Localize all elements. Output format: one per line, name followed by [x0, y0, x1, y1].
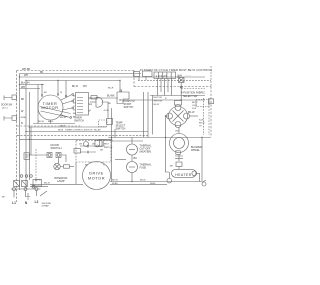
power lead N	[25, 191, 27, 198]
wire timer to right 2	[90, 101, 96, 103]
thermal fuse contact	[129, 166, 135, 168]
ground strap diagonal	[40, 191, 47, 196]
wire into thermal fuse	[115, 158, 126, 160]
svg-text:R: R	[103, 165, 105, 167]
component connector J2	[107, 119, 113, 125]
svg-text:BK-W: BK-W	[35, 180, 42, 182]
wire top third	[26, 80, 120, 82]
svg-text:1 2 3 4 5: 1 2 3 4 5	[156, 74, 168, 78]
wire fuse drop	[131, 173, 133, 182]
wire door switch right	[61, 155, 66, 162]
wire motor leads	[90, 162, 102, 164]
dashed box door-lamp	[35, 149, 37, 183]
wire right dashed stub 1	[203, 98, 205, 135]
node timer top 2	[57, 94, 59, 96]
wire start branch right dashed	[181, 88, 205, 90]
svg-text:BK-W: BK-W	[140, 180, 145, 182]
svg-text:GY-R: GY-R	[104, 110, 110, 112]
node junction N bus	[25, 80, 26, 81]
node cam contact 1	[72, 94, 74, 96]
drive motor switch dashed box	[76, 141, 111, 163]
wire N bus vertical	[25, 83, 27, 189]
svg-text:BK: BK	[21, 98, 25, 101]
wire right lower vertical	[201, 138, 203, 182]
wire drop to timer 1	[41, 85, 43, 96]
svg-text:DOOR SW: DOOR SW	[1, 105, 13, 107]
wire big box bottom 1	[108, 137, 211, 139]
wire door switch left	[29, 154, 47, 156]
fuse block F1	[33, 180, 42, 187]
svg-text:GN: GN	[175, 131, 179, 133]
node junction motor left	[165, 115, 166, 116]
motor switch small rect	[95, 141, 102, 147]
svg-text:W-BK: W-BK	[150, 183, 156, 185]
svg-text:MOTOR: MOTOR	[41, 105, 58, 110]
motor switch box line3	[152, 95, 154, 135]
svg-text:GY: GY	[199, 126, 203, 128]
svg-text:GY-R: GY-R	[192, 105, 198, 107]
svg-text:R: R	[21, 122, 23, 125]
wire right verticals to motor	[112, 108, 116, 182]
wire motor right stub	[190, 115, 199, 117]
motor winding lobe left	[167, 113, 173, 119]
svg-text:SWITCH: SWITCH	[116, 128, 126, 131]
svg-text:SWITCH: SWITCH	[124, 106, 134, 109]
heat selector switch S2	[117, 92, 129, 104]
svg-text:N: N	[25, 201, 28, 205]
node junction drop1	[41, 84, 42, 85]
component plug A	[12, 95, 17, 100]
motor switch contacts inside	[80, 146, 105, 152]
svg-text:R: R	[90, 110, 92, 112]
svg-text:WHEEL: WHEEL	[191, 149, 201, 152]
svg-text:HEATER: HEATER	[175, 173, 191, 177]
push to start switch S3	[179, 78, 185, 83]
wire heater left terminal link	[168, 172, 170, 178]
timer sequence chart dashed right	[210, 66, 212, 87]
thermal fuse TF1	[127, 162, 138, 173]
motor winding cross wires	[173, 111, 184, 122]
svg-text:SWITCH: SWITCH	[154, 101, 163, 103]
wire start switch drop	[180, 83, 182, 101]
svg-text:L2: L2	[35, 200, 39, 204]
svg-text:L1: L1	[12, 201, 16, 205]
power lead L2	[36, 191, 38, 197]
node junction chart drop	[177, 76, 178, 77]
node bottom right terminal	[202, 182, 206, 186]
heater terminal left	[167, 178, 172, 183]
svg-text:BK: BK	[108, 103, 111, 105]
wire mid horizontal lower	[26, 131, 148, 133]
heater terminal right	[192, 171, 197, 176]
svg-text:R-W: R-W	[192, 108, 196, 110]
wire timer cam line 4	[60, 115, 70, 118]
wire selector drop	[119, 81, 121, 93]
power lead L1	[13, 191, 15, 198]
svg-text:W: W	[90, 98, 92, 100]
node junction L1-WH	[19, 76, 20, 77]
timer cam chord 1	[40, 107, 71, 114]
relay box A mark	[14, 181, 19, 186]
component start relay	[196, 100, 209, 107]
heater HTR1	[172, 169, 197, 177]
node door switch stub B	[4, 116, 12, 121]
motor winding lobe right	[184, 113, 190, 119]
wire thermostat drop top	[131, 138, 133, 145]
node cam contact 2	[72, 100, 74, 102]
svg-text:BU-W: BU-W	[44, 183, 51, 185]
motor switch round contact	[84, 142, 89, 147]
node cam contact 3	[72, 107, 74, 109]
svg-text:BU-BK: BU-BK	[107, 95, 115, 98]
timer motor M1	[38, 95, 63, 120]
svg-text:BK-W: BK-W	[112, 180, 119, 182]
chart connector small box A	[134, 72, 140, 77]
thermal cutoff TC1	[127, 144, 138, 155]
node selector top	[120, 90, 122, 92]
node motor switch contact a	[87, 145, 89, 147]
wire chart terminal drops	[158, 79, 172, 96]
svg-text:LAMP: LAMP	[57, 179, 65, 183]
wire left of timer vertical	[37, 85, 39, 124]
svg-text:(N.O.): (N.O.)	[2, 108, 8, 110]
timer sequence chart dashed bottom	[138, 79, 211, 81]
blower wheel inner	[174, 138, 185, 149]
svg-text:WH: WH	[83, 86, 87, 88]
node junction door feed	[29, 154, 30, 155]
svg-text:5M: 5M	[100, 150, 103, 152]
wire terminal diag	[202, 180, 206, 183]
svg-text:WH: WH	[24, 74, 28, 77]
svg-text:BK: BK	[2, 197, 5, 199]
svg-text:SWITCH: SWITCH	[104, 147, 113, 149]
wire dashed boundary lower	[17, 134, 148, 136]
terminal block TB1 circles	[20, 175, 23, 178]
wire heater left feed	[166, 116, 170, 172]
svg-text:R-W: R-W	[199, 120, 203, 122]
drive motor M3	[83, 162, 111, 190]
capacitor block bars	[25, 155, 29, 157]
svg-text:- - - - -: - - - - -	[185, 75, 191, 77]
motor winding lobe bottom	[175, 122, 181, 128]
wire drop to timer 3	[65, 81, 67, 96]
motor start winding M2	[169, 107, 188, 126]
resistor near lamp	[64, 165, 70, 168]
wire terminal row	[11, 188, 41, 190]
thermostat small box	[176, 162, 182, 167]
node door switch stub A	[4, 96, 12, 101]
wire timer to right 1	[90, 97, 118, 99]
wire timer bottom drop	[50, 120, 52, 124]
wire bottom long 1	[110, 181, 202, 183]
svg-text:WH: WH	[178, 75, 182, 78]
wire console dashed step	[133, 71, 135, 87]
wire bottom long 2 left	[30, 183, 83, 185]
timer switch block S1	[76, 93, 89, 116]
junction dots	[19, 76, 203, 182]
wire console dashed left edge	[16, 71, 18, 203]
svg-text:BK-W: BK-W	[188, 111, 195, 114]
motor switch box line2	[147, 92, 149, 137]
chart cell box	[154, 72, 176, 79]
wire box left drop	[75, 162, 77, 184]
timer block side ticks	[88, 98, 90, 111]
svg-text:AT START OF CYCLE TIMER MUST B: AT START OF CYCLE TIMER MUST BE IN (CONT…	[140, 68, 213, 72]
node below start switch	[180, 86, 182, 88]
svg-text:W: W	[73, 110, 75, 112]
svg-text:BU: BU	[73, 103, 76, 105]
svg-text:BK-W: BK-W	[199, 123, 204, 125]
svg-text:BELT: BELT	[104, 144, 110, 146]
wire motor to blower	[178, 128, 180, 134]
wire timer cam line 2	[62, 101, 72, 104]
wire right dashed stub 2	[208, 98, 210, 135]
wire top WH long	[20, 76, 206, 78]
blower bottom terminal	[176, 151, 181, 155]
wire thermostat link	[131, 155, 133, 162]
door switch contact B	[56, 153, 61, 158]
wire console dashed right edge	[210, 87, 212, 138]
svg-text:BK: BK	[73, 96, 76, 98]
svg-text:(HEATER): (HEATER)	[140, 151, 152, 154]
svg-text:BK-W: BK-W	[72, 86, 79, 88]
component connector J1	[99, 120, 108, 127]
wire top WH-BK	[20, 73, 142, 75]
wire timer cam line 1	[61, 95, 72, 101]
door switch contact B circle	[57, 154, 60, 157]
svg-text:BK-W: BK-W	[154, 104, 161, 106]
lamp filament	[55, 164, 59, 168]
svg-text:WH-BK: WH-BK	[22, 68, 31, 71]
wire bottom short left	[30, 186, 48, 188]
wire dashed boundary mid-left	[17, 125, 82, 127]
chart cell dividers	[158, 72, 171, 79]
timer block contacts	[77, 98, 83, 113]
wire timer cam line 3	[62, 108, 72, 110]
svg-text:BK: BK	[90, 104, 93, 106]
ground symbol	[26, 193, 30, 200]
wire mid horizontal third	[20, 138, 112, 140]
door switch contact A circle	[48, 154, 51, 157]
wire chart left stubs	[139, 77, 146, 81]
timer cam chord 2	[41, 111, 69, 117]
motor winding lobe top	[175, 105, 181, 111]
node junction selector	[119, 80, 120, 81]
wire box edge left	[30, 127, 32, 155]
door switch contact A	[47, 153, 52, 158]
connector bracket right	[209, 99, 214, 104]
node junction heater feed	[165, 137, 166, 138]
svg-text:W-BK: W-BK	[112, 183, 118, 185]
node junction L2 mid	[29, 139, 30, 140]
wire mid horizontal BK	[29, 126, 106, 128]
wire right mid horizontal	[150, 95, 205, 97]
wire heater right down	[196, 173, 200, 181]
component above motor	[175, 101, 182, 106]
wire L1 bus vertical	[19, 74, 21, 191]
motor switch box line1	[143, 92, 145, 137]
wire lamp leads	[59, 158, 64, 167]
wire buzzer right	[102, 102, 109, 119]
relay box B mark	[22, 181, 27, 186]
svg-text:SELECT SW: SELECT SW	[183, 95, 198, 98]
wire under timer horizontal	[33, 123, 75, 125]
svg-text:BK: BK	[44, 92, 47, 94]
node junction start bus	[119, 99, 120, 100]
svg-text:WH: WH	[21, 86, 25, 89]
interior lamp LP1	[54, 163, 60, 169]
svg-text:FUSE: FUSE	[140, 167, 147, 170]
component relay box A	[14, 181, 20, 187]
switch S3 cross	[179, 78, 184, 82]
wire L2 bus vertical	[28, 92, 30, 180]
wire blower drop	[178, 154, 180, 161]
node N terminal	[24, 188, 27, 191]
svg-text:BK-W: BK-W	[192, 102, 197, 104]
svg-text:BU-W: BU-W	[38, 121, 45, 123]
wire right top horizontal	[120, 99, 205, 101]
svg-text:BROKEN: BROKEN	[104, 140, 113, 142]
svg-text:W: W	[60, 92, 62, 94]
svg-text:R: R	[73, 106, 75, 108]
svg-text:MOTOR: MOTOR	[88, 175, 105, 180]
node junction drop2	[57, 80, 58, 81]
node L2 terminal	[35, 188, 38, 191]
node motor switch contact c	[87, 151, 89, 153]
svg-text:W-BK: W-BK	[21, 117, 27, 119]
svg-text:SWITCH: SWITCH	[74, 120, 84, 123]
svg-text:BU-W: BU-W	[60, 117, 67, 119]
component relay box B	[22, 181, 28, 187]
svg-text:W: W	[21, 110, 24, 113]
wire console dashed top right	[134, 86, 211, 88]
wire BU-WH	[20, 84, 45, 86]
component above buzzer	[91, 96, 97, 100]
svg-text:BK-R: BK-R	[60, 125, 66, 127]
wire big box bottom 2	[112, 140, 144, 142]
thermal cutoff contact	[129, 149, 135, 151]
node junction fuse bottom	[131, 181, 132, 182]
svg-text:W: W	[73, 99, 75, 101]
wire motor left stub	[166, 115, 169, 117]
svg-text:BU: BU	[134, 157, 138, 160]
node cam contact 4	[70, 117, 72, 119]
node junction N mid	[25, 131, 26, 132]
node junction start drop	[181, 99, 182, 100]
node junction L1-BUWH	[19, 84, 20, 85]
svg-text:2M: 2M	[92, 144, 95, 146]
wire WH short	[20, 88, 41, 90]
node timer top 3	[65, 95, 67, 97]
wire console dashed top edge	[17, 70, 135, 72]
wire heater feed	[178, 167, 180, 170]
wire bottom long 2 right	[110, 183, 167, 185]
svg-text:BK: BK	[170, 166, 173, 168]
svg-text:BK-R: BK-R	[48, 121, 54, 123]
component plug B	[12, 116, 17, 121]
svg-text:BK: BK	[40, 71, 44, 74]
capacitor block on bus	[24, 153, 30, 160]
chart connector small box B	[143, 71, 153, 77]
node bottom left	[32, 185, 35, 188]
svg-text:SWITCH: SWITCH	[51, 146, 62, 150]
component in motor box left	[74, 149, 81, 154]
svg-text:MOTOR: MOTOR	[154, 97, 163, 99]
node junction center bottom	[111, 137, 112, 138]
node terminal block circle 3	[30, 175, 33, 178]
motor switch bracket	[100, 140, 104, 147]
blower wheel outer	[170, 134, 189, 153]
node junction right bottom	[201, 137, 202, 138]
buzzer BZ1	[96, 97, 103, 107]
capacitor C1 marks	[175, 156, 183, 158]
svg-text:BK-R TIMER CONTROL SWITCH: BK-R TIMER CONTROL SWITCH BU-BK	[58, 130, 101, 132]
svg-text:BU-WH: BU-WH	[21, 82, 30, 85]
wire drop to timer 2	[57, 81, 59, 95]
svg-text:STRAP: STRAP	[42, 205, 50, 208]
node junction L2-BK	[29, 126, 30, 127]
svg-text:1M: 1M	[79, 144, 82, 146]
wire lamp right	[70, 166, 75, 168]
node L1 terminal	[13, 188, 16, 191]
node terminal block circle 2	[25, 175, 28, 178]
node motor switch contact b	[97, 145, 99, 147]
svg-text:BU-R: BU-R	[108, 88, 114, 90]
node timer top 1	[41, 95, 43, 97]
